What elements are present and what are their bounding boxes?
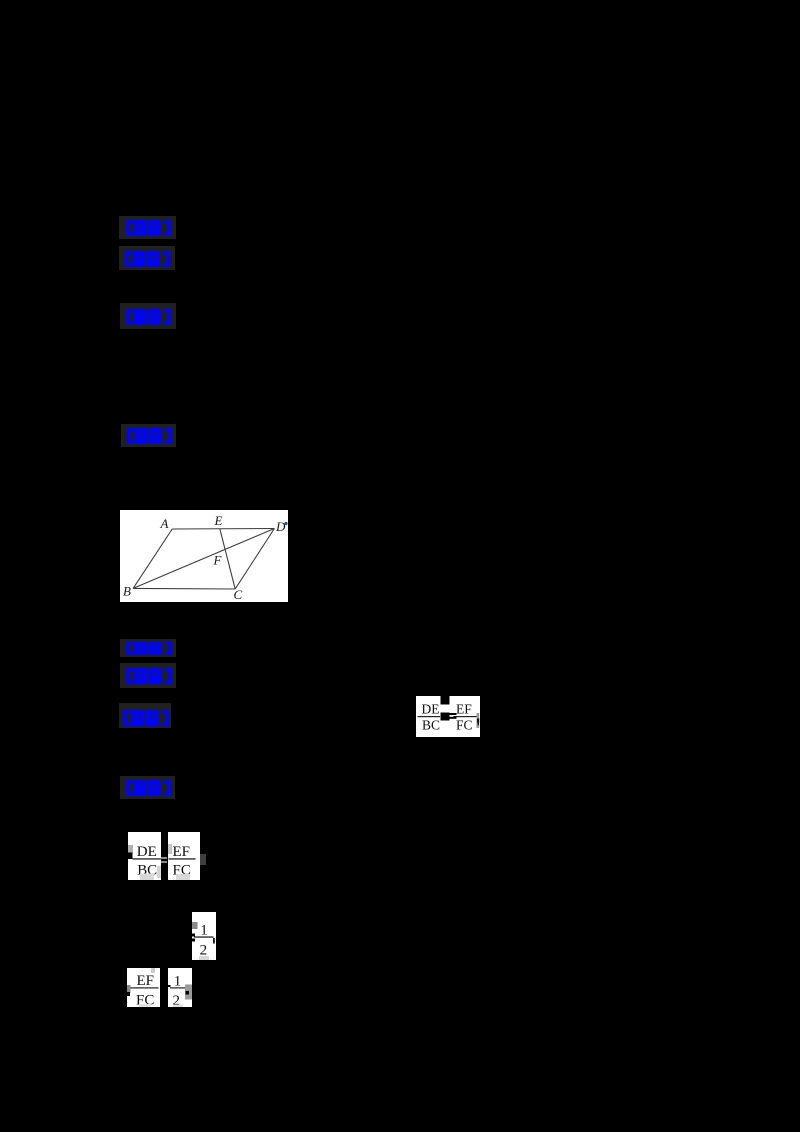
- svg-text:EF: EF: [136, 973, 154, 989]
- dark artifact right of EF/FC: [200, 854, 206, 865]
- formula image: DE/BC = EF/FC ,: [416, 696, 481, 737]
- black artifact notch top center: [440, 696, 449, 705]
- svg-text:F: F: [213, 553, 223, 568]
- svg-text:E: E: [214, 513, 223, 528]
- wire side AD: [172, 528, 274, 531]
- svg-text:C: C: [234, 587, 243, 601]
- section label 【分析】 #2: [119, 246, 175, 270]
- section label 【解答】 #3: [120, 303, 176, 329]
- svg-text:D: D: [275, 519, 286, 534]
- svg-text:B: B: [123, 584, 131, 599]
- section label 【解答】 #8: [120, 776, 175, 799]
- svg-text:EF: EF: [173, 844, 191, 860]
- section label 【点评】 #4: [121, 424, 176, 447]
- wire diagonal BD: [133, 529, 274, 589]
- svg-text:EF: EF: [456, 701, 472, 716]
- svg-text:1: 1: [201, 922, 209, 938]
- svg-text:BC: BC: [422, 717, 440, 732]
- svg-text:A: A: [160, 516, 169, 531]
- section label 【考点】 #5: [120, 639, 176, 657]
- svg-text:FC: FC: [456, 717, 473, 732]
- geometry figure: parallelogram ABCD with E on AD, diagonal BD and segment EC meeting at F: [120, 510, 288, 602]
- section label 【分析】 #7: [119, 703, 171, 728]
- formula image: fraction 1/2: [192, 912, 216, 960]
- wire segment EC: [220, 529, 235, 589]
- blue speck near D: [284, 522, 287, 525]
- gray strip with comma: [476, 713, 479, 728]
- formula image: fraction 1/2 (second): [168, 968, 192, 1007]
- svg-text:DE: DE: [421, 701, 439, 716]
- formula image: fraction EF/FC (second): [127, 968, 160, 1007]
- equals artifact between fractions: [161, 857, 167, 859]
- section label 【专题】 #6: [120, 663, 176, 688]
- wire side AB: [133, 529, 172, 588]
- formula image: fraction EF/FC: [168, 832, 200, 881]
- wire side BC: [133, 587, 235, 590]
- svg-text:DE: DE: [137, 844, 157, 860]
- section label 【考点】 #1: [119, 216, 176, 239]
- black artifact blob with equals: [440, 712, 449, 720]
- wire side DC: [235, 529, 274, 590]
- svg-text:1: 1: [174, 973, 182, 989]
- formula image: fraction DE/BC: [128, 832, 161, 881]
